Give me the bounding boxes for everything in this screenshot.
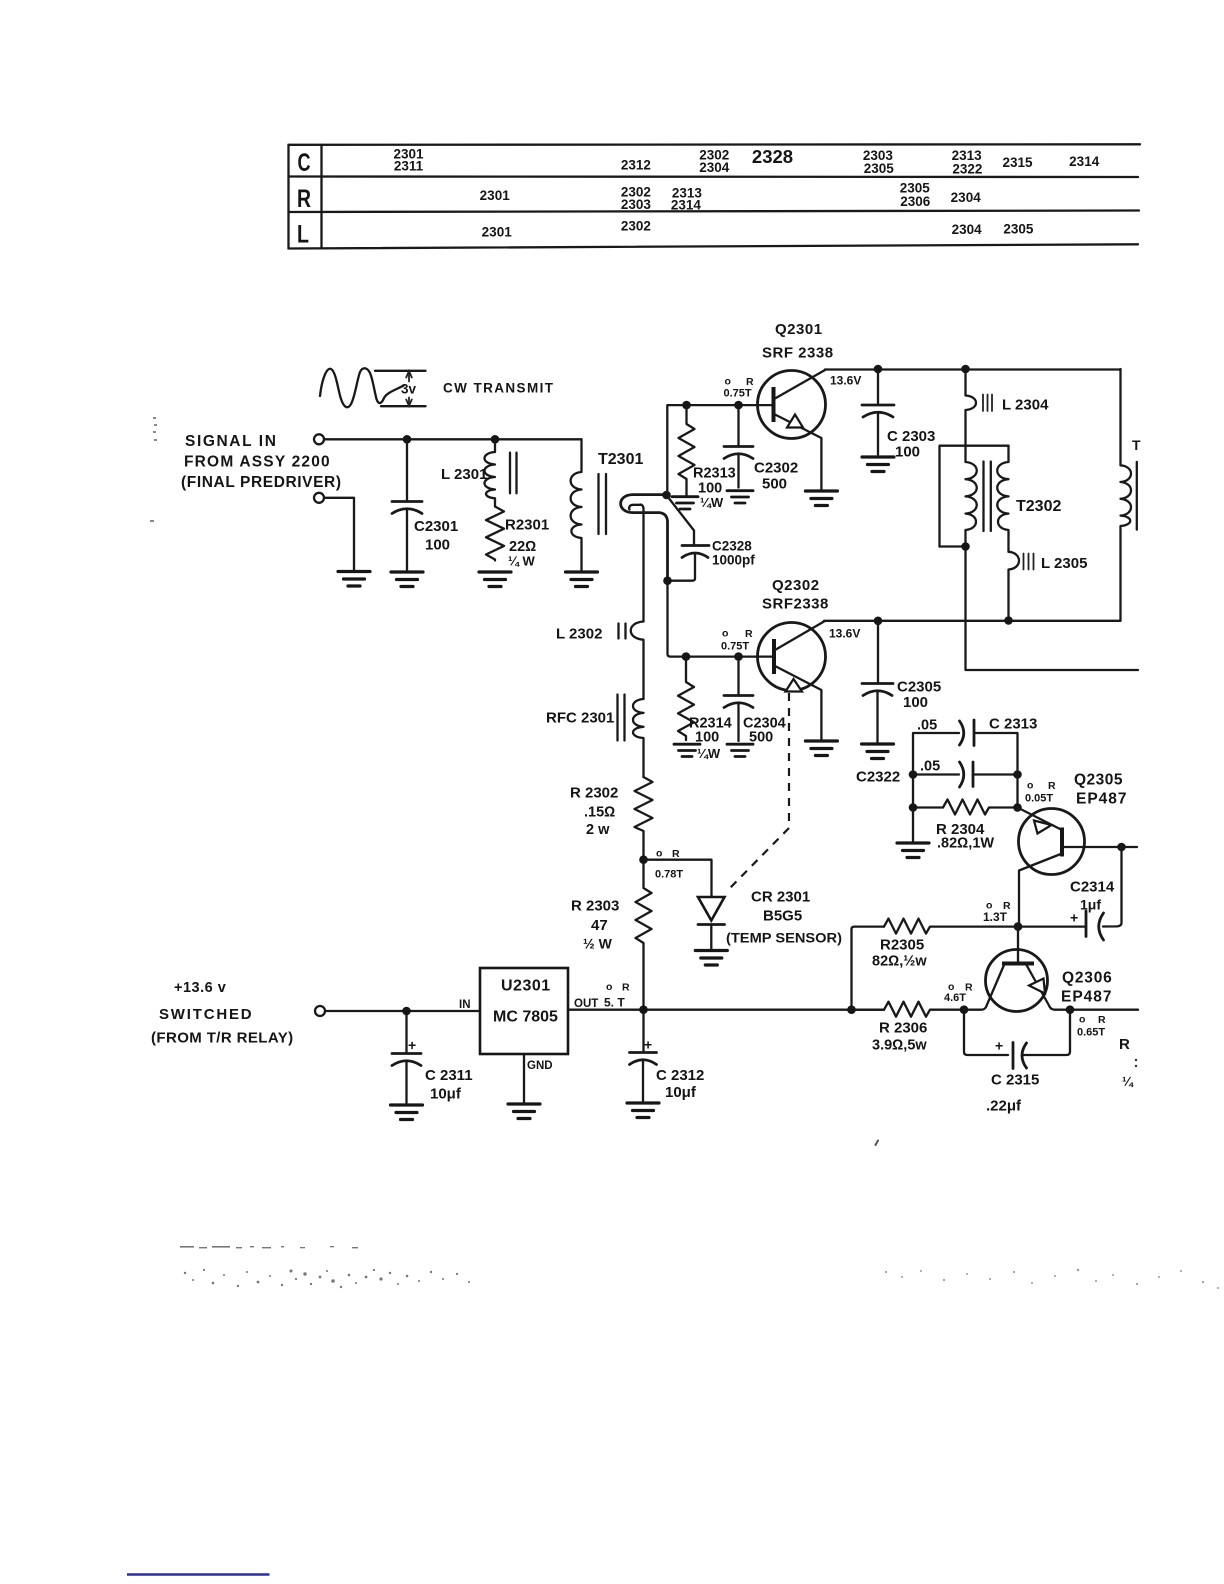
- transistor Q2302: [758, 577, 829, 739]
- svg-text:+: +: [644, 1037, 652, 1053]
- svg-text:Q2301: Q2301: [775, 321, 823, 338]
- capacitor C2304: [724, 661, 786, 746]
- svg-text:C 2311: C 2311: [425, 1067, 473, 1084]
- svg-text:R: R: [965, 982, 973, 994]
- resistor R2304: [913, 775, 1018, 852]
- svg-text:2306: 2306: [900, 194, 931, 209]
- wire: input to T2301: [324, 438, 581, 440]
- svg-text:R: R: [1119, 1036, 1130, 1053]
- wire up to R2305: [852, 927, 885, 1010]
- svg-text:OUT: OUT: [574, 998, 598, 1010]
- node hairpin top: [662, 491, 671, 500]
- svg-text:o: o: [1079, 1014, 1085, 1026]
- table row L entries: [482, 219, 1034, 240]
- node C2305: [874, 617, 883, 626]
- svg-text:2304: 2304: [699, 160, 730, 175]
- svg-text:3.9Ω,5w: 3.9Ω,5w: [872, 1038, 927, 1054]
- node Q2306 collector: [960, 1005, 969, 1014]
- resistor R2303: [571, 864, 652, 1010]
- svg-text:.05: .05: [920, 759, 940, 775]
- svg-text:(FINAL PREDRIVER): (FINAL PREDRIVER): [181, 474, 342, 491]
- svg-text:¼ W: ¼ W: [508, 554, 535, 569]
- inductor RFC2301: [546, 695, 644, 778]
- svg-text:T2301: T2301: [598, 451, 643, 468]
- bias label O R 0.75T (Q2302): [721, 628, 753, 653]
- wire Q2306 emitter out: [1070, 1009, 1138, 1011]
- node R2303 bottom: [639, 1005, 648, 1014]
- svg-text:C: C: [298, 149, 311, 177]
- svg-text:R: R: [1048, 780, 1056, 792]
- svg-text:2305: 2305: [864, 161, 895, 176]
- wire T2302 center tap out: [966, 551, 1139, 671]
- capacitor C2314: [1070, 847, 1122, 940]
- transistor Q2305: [1018, 772, 1138, 923]
- wire +5V rail: [568, 1009, 884, 1011]
- svg-text:SIGNAL IN: SIGNAL IN: [185, 433, 277, 450]
- svg-text:+: +: [995, 1038, 1003, 1054]
- node R2304 left: [909, 803, 918, 812]
- node at L2301: [491, 435, 500, 444]
- svg-text:+: +: [408, 1037, 416, 1053]
- svg-text:C2322: C2322: [856, 769, 900, 786]
- label O R 5.T: [604, 981, 630, 1010]
- wire 13.6V rail lower (Q2302 collector rail): [824, 620, 1121, 622]
- svg-text:1μf: 1μf: [1080, 897, 1101, 913]
- capacitor C2302: [724, 409, 798, 493]
- bias label O R 0.78T: [655, 848, 683, 881]
- svg-text:R: R: [297, 185, 311, 213]
- svg-text:0.65T: 0.65T: [1077, 1027, 1105, 1039]
- svg-text:R 2303: R 2303: [571, 898, 619, 915]
- inductor L2305: [1009, 552, 1088, 621]
- svg-text:FROM ASSY 2200: FROM ASSY 2200: [184, 454, 331, 471]
- svg-text:R: R: [1098, 1014, 1106, 1026]
- resistor R2301: [486, 507, 549, 569]
- svg-text:13.6V: 13.6V: [829, 627, 860, 641]
- svg-text:¼W: ¼W: [700, 495, 724, 510]
- svg-text:(FROM T/R RELAY): (FROM T/R RELAY): [151, 1030, 294, 1047]
- svg-text:½ W: ½ W: [583, 936, 613, 952]
- svg-text:R2313: R2313: [693, 466, 736, 482]
- ground (Q2301 emitter): [805, 491, 837, 506]
- svg-text:C2328: C2328: [712, 539, 752, 554]
- svg-text:2301: 2301: [480, 188, 511, 203]
- svg-text:100: 100: [895, 444, 920, 461]
- ground (C2305): [862, 744, 894, 759]
- svg-text:13.6V: 13.6V: [830, 374, 861, 388]
- reference table frame: [289, 144, 1141, 248]
- svg-text:+: +: [1070, 910, 1078, 926]
- ground (R2314): [674, 744, 700, 756]
- ground (C2302): [727, 491, 753, 503]
- svg-text:2314: 2314: [671, 197, 702, 212]
- svg-text:2322: 2322: [952, 162, 982, 177]
- wire 1.3T node to Q2306: [1017, 927, 1019, 964]
- resistor R2306: [855, 1002, 964, 1054]
- capacitor C2315: [964, 1014, 1070, 1115]
- resistor R2314: [678, 661, 732, 761]
- ground (T2301): [566, 572, 598, 587]
- node L2305 bottom: [1004, 616, 1013, 625]
- svg-text:EP487: EP487: [1076, 791, 1128, 808]
- node Q2305 collector / C2314: [1014, 922, 1023, 931]
- svg-text:.82Ω,1W: .82Ω,1W: [937, 836, 994, 852]
- svg-text:2311: 2311: [394, 158, 424, 173]
- svg-text:EP487: EP487: [1061, 989, 1113, 1006]
- svg-text:4.6T: 4.6T: [944, 992, 966, 1004]
- label O R 0.65T: [1077, 1014, 1106, 1039]
- svg-text:(TEMP SENSOR): (TEMP SENSOR): [726, 931, 842, 946]
- svg-text:2304: 2304: [952, 222, 983, 237]
- label O R 1.3T: [983, 900, 1011, 925]
- ground (lower terminal): [338, 572, 370, 587]
- svg-text:¼W: ¼W: [697, 746, 721, 761]
- svg-text:0.05T: 0.05T: [1025, 793, 1053, 805]
- svg-text:1000pf: 1000pf: [712, 553, 755, 568]
- transformer T2303 (cut off): [1121, 369, 1142, 621]
- svg-text:2304: 2304: [951, 190, 982, 205]
- svg-text:47: 47: [591, 917, 608, 934]
- svg-text:2314: 2314: [1069, 154, 1100, 169]
- svg-text:GND: GND: [527, 1060, 553, 1072]
- dashed thermal link Q2302-CR2301: [729, 693, 789, 889]
- ground (Q2302 emitter): [805, 741, 837, 756]
- svg-text:0.75T: 0.75T: [721, 641, 749, 653]
- node R2305 branch: [847, 1005, 856, 1014]
- svg-text:Q2302: Q2302: [772, 577, 820, 594]
- svg-text:0.75T: 0.75T: [724, 388, 752, 400]
- node C2303: [874, 365, 883, 374]
- svg-text:T2302: T2302: [1016, 498, 1061, 515]
- svg-text:2 w: 2 w: [586, 822, 610, 838]
- svg-text:2305: 2305: [1003, 221, 1034, 236]
- 3v measurement lines: [375, 370, 426, 372]
- svg-text:2303: 2303: [621, 197, 652, 212]
- svg-text:L 2302: L 2302: [556, 626, 602, 643]
- svg-text:82Ω,½w: 82Ω,½w: [872, 954, 927, 970]
- node R2313: [682, 401, 691, 410]
- svg-text:2315: 2315: [1002, 155, 1033, 170]
- svg-text:o: o: [1027, 780, 1033, 792]
- svg-text:SRF2338: SRF2338: [762, 596, 829, 613]
- svg-text:L 2305: L 2305: [1041, 555, 1087, 572]
- svg-text:5. T: 5. T: [604, 996, 625, 1010]
- ground (C2303): [862, 457, 894, 472]
- svg-text:Q2305: Q2305: [1074, 772, 1123, 789]
- wire riser to Q2301 base: [667, 405, 773, 494]
- input terminal bottom: [314, 493, 324, 503]
- sine wave symbol: [320, 368, 404, 407]
- node C2328 return: [663, 576, 672, 585]
- svg-text:2312: 2312: [621, 158, 651, 173]
- resistor R2313: [679, 409, 736, 510]
- label O R 4.6T: [944, 981, 973, 1004]
- svg-text:3v: 3v: [401, 382, 417, 397]
- stray pen tick: [876, 1141, 879, 1146]
- input terminal +13.6V: [315, 1006, 325, 1016]
- inductor L2301: [441, 444, 517, 507]
- svg-text:L 2301: L 2301: [441, 466, 487, 483]
- svg-text:.15Ω: .15Ω: [584, 805, 615, 821]
- svg-text:L 2304: L 2304: [1002, 397, 1049, 414]
- node at C2301: [403, 435, 412, 444]
- node C2322 left: [909, 770, 918, 779]
- svg-text:R: R: [622, 982, 630, 994]
- node C2322 right: [1013, 770, 1022, 779]
- cut-off label right edge: [1119, 1036, 1137, 1089]
- svg-text:C2301: C2301: [414, 518, 458, 535]
- svg-text:RFC 2301: RFC 2301: [546, 710, 614, 727]
- wire to CR2301: [644, 860, 712, 897]
- node R2314: [682, 652, 691, 661]
- svg-text:R: R: [745, 628, 753, 640]
- ground (C2312): [627, 1103, 659, 1118]
- ground (C2304): [727, 744, 753, 756]
- svg-text:o: o: [722, 628, 728, 640]
- capacitor C2301: [392, 444, 458, 571]
- svg-text:SRF 2338: SRF 2338: [762, 345, 834, 362]
- svg-text:100: 100: [425, 537, 450, 554]
- svg-text:1.3T: 1.3T: [983, 910, 1008, 924]
- svg-text:C2314: C2314: [1070, 879, 1115, 896]
- ground (C2301): [391, 572, 423, 587]
- svg-text:2301: 2301: [482, 224, 513, 239]
- svg-text:Q2306: Q2306: [1062, 970, 1113, 987]
- ground (CR2301): [695, 951, 727, 966]
- svg-text:+13.6 v: +13.6 v: [174, 980, 226, 996]
- node C2304: [734, 652, 743, 661]
- regulator U2301 MC7805: [459, 968, 598, 1072]
- capacitor C2305: [862, 625, 941, 742]
- left margin scan marks: [150, 417, 157, 522]
- node C2302: [734, 401, 743, 410]
- svg-text:R: R: [746, 376, 754, 388]
- capacitor C2303: [862, 373, 935, 460]
- capacitor C2312: [630, 1014, 705, 1101]
- ground (C2311): [391, 1105, 423, 1120]
- ground (R2301): [479, 572, 511, 587]
- U2301 gnd lead: [523, 1054, 525, 1102]
- svg-text:R 2306: R 2306: [879, 1020, 927, 1037]
- svg-text:CR 2301: CR 2301: [751, 889, 810, 906]
- resistor R2302: [570, 777, 653, 860]
- bottom speckle noise: [180, 1246, 470, 1288]
- svg-text:R2305: R2305: [880, 937, 924, 954]
- node R2302/R2303: [639, 855, 648, 864]
- svg-text:C2305: C2305: [897, 679, 941, 696]
- capacitor C2328: [668, 497, 756, 581]
- label O R 0.05T: [1025, 780, 1056, 805]
- wire R2304 left down: [912, 808, 914, 842]
- ground (U2301): [508, 1104, 540, 1119]
- wire terminal to U2301 IN: [325, 1010, 480, 1012]
- svg-text:.22μf: .22μf: [986, 1098, 1022, 1115]
- diode CR2301: [698, 889, 842, 949]
- svg-text:MC 7805: MC 7805: [493, 1009, 558, 1026]
- capacitor C2322 row: [856, 759, 1018, 788]
- node C2311: [402, 1007, 411, 1016]
- wire 13.6V rail top: [825, 368, 1121, 370]
- bias label O R 0.75T (Q2301): [724, 376, 755, 400]
- transformer T2302: [940, 446, 1062, 552]
- svg-text:¼: ¼: [1122, 1074, 1134, 1089]
- svg-text:2302: 2302: [621, 219, 651, 234]
- capacitor C2311: [392, 1015, 473, 1103]
- svg-text:0.78T: 0.78T: [655, 869, 683, 881]
- svg-text:o: o: [606, 981, 612, 993]
- inductor L2304: [966, 373, 1050, 445]
- svg-text:C 2315: C 2315: [991, 1072, 1039, 1089]
- svg-text:CW TRANSMIT: CW TRANSMIT: [443, 381, 554, 396]
- svg-text:500: 500: [762, 476, 787, 493]
- svg-text:o: o: [656, 848, 662, 860]
- svg-text:R: R: [672, 848, 680, 860]
- table row C entries: [393, 146, 1099, 177]
- svg-text:100: 100: [903, 694, 928, 711]
- wire Q2302 base feed: [668, 585, 775, 657]
- svg-text:C 2313: C 2313: [989, 716, 1037, 733]
- svg-text:R2301: R2301: [505, 517, 549, 534]
- transistor Q2306: [964, 950, 1113, 1012]
- node R2304 right / Q2305 emitter: [1013, 803, 1022, 812]
- svg-text:10μf: 10μf: [430, 1086, 462, 1103]
- node L2304: [961, 365, 970, 374]
- input terminal top: [314, 434, 324, 444]
- wire: lower terminal to ground: [324, 498, 354, 570]
- svg-text:L: L: [297, 221, 309, 249]
- ground (C2322 network): [897, 843, 929, 858]
- svg-text:.05: .05: [917, 718, 937, 734]
- blue pen line bottom left: [127, 1573, 270, 1576]
- svg-text:T: T: [1132, 437, 1141, 453]
- table row R entries: [480, 181, 982, 213]
- node T2302 left bottom: [961, 542, 970, 551]
- resistor R2305: [872, 919, 1085, 970]
- svg-text:10μf: 10μf: [665, 1084, 697, 1101]
- T2301 secondary hairpin: [621, 495, 668, 622]
- svg-text:U2301: U2301: [501, 978, 551, 995]
- svg-text:SWITCHED: SWITCHED: [159, 1006, 253, 1023]
- svg-text:C2302: C2302: [754, 460, 798, 477]
- svg-text:C 2312: C 2312: [656, 1067, 704, 1084]
- node Q2306 emitter: [1066, 1005, 1075, 1014]
- transformer T2301 primary: [571, 439, 644, 570]
- inductor L2302: [556, 622, 644, 700]
- svg-text:B5G5: B5G5: [763, 908, 802, 925]
- ground (R2313): [672, 497, 698, 509]
- svg-text:2328: 2328: [752, 146, 793, 167]
- svg-text:R 2302: R 2302: [570, 785, 618, 802]
- node C2314 top: [1117, 843, 1126, 852]
- transistor Q2301: [758, 321, 834, 489]
- svg-text:o: o: [725, 376, 731, 388]
- 3v arrow: [406, 371, 412, 406]
- svg-text:C 2303: C 2303: [887, 428, 935, 445]
- capacitor C2313: [913, 716, 1037, 775]
- svg-text:IN: IN: [459, 999, 471, 1011]
